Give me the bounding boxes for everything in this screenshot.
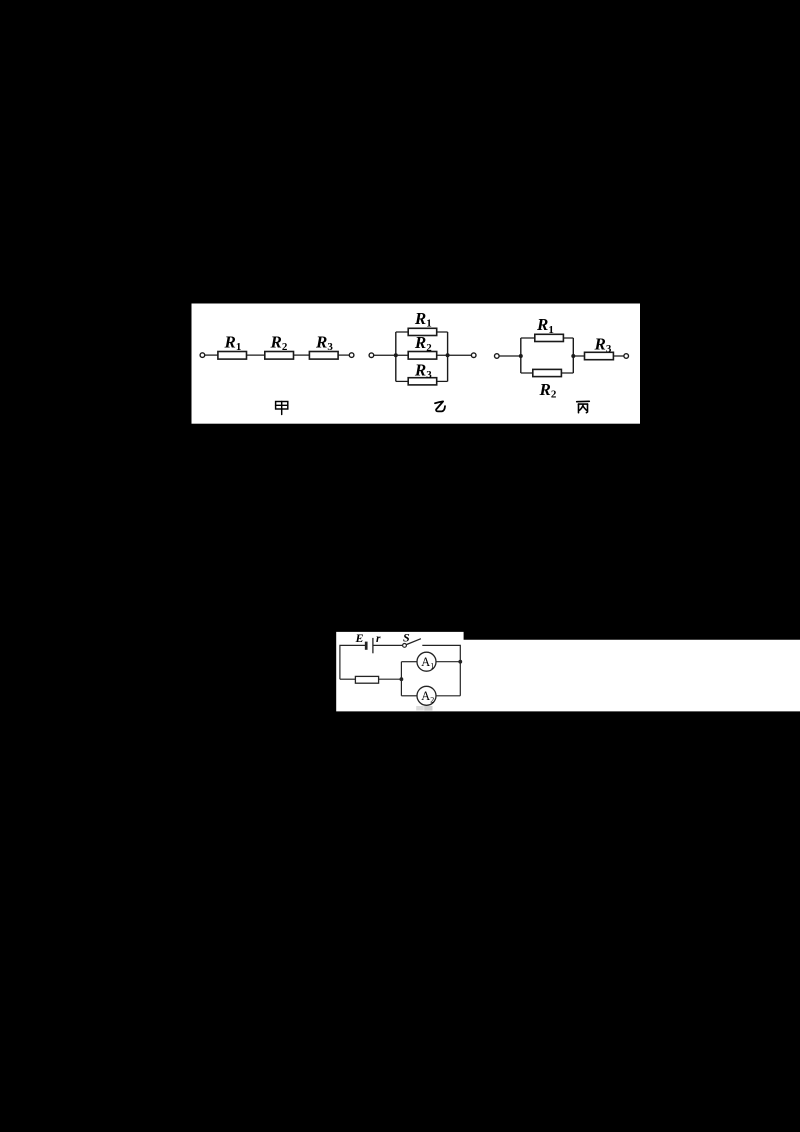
wire bottom branch left (bing) [521, 372, 533, 374]
caption yi (Chinese character) [435, 401, 445, 411]
node left (bing) [519, 354, 523, 358]
resistor R2 (yi) [408, 352, 437, 360]
left rail (yi) [395, 332, 397, 381]
wire top branch right (yi) [437, 331, 448, 333]
wire bottom branch right (bing) [561, 372, 573, 374]
switch S hinge [403, 644, 407, 648]
ammeter A1 body [417, 652, 436, 671]
wire [374, 354, 408, 356]
wire [437, 354, 472, 356]
terminal right (circuit bing) [624, 354, 629, 359]
terminal left (circuit bing) [495, 354, 500, 359]
right rail (bing) [572, 338, 574, 373]
resistor R2 (jia) [265, 352, 294, 360]
wire top branch left (bing) [521, 337, 535, 339]
wire [613, 355, 624, 357]
resistor R1 (jia) [218, 352, 247, 360]
right rail (yi) [447, 332, 449, 381]
caption jia (Chinese character) [276, 402, 288, 415]
terminal left (circuit yi) [369, 353, 374, 358]
svg-text:r: r [376, 633, 381, 645]
right rail lower (ammeter circuit) [459, 662, 461, 696]
wire switch to right rail [422, 645, 460, 661]
wire bottom branch left (yi) [396, 380, 408, 382]
wire bottom left [340, 678, 355, 680]
battery E r negative plate [365, 642, 368, 650]
wire [205, 354, 218, 356]
svg-text:S: S [403, 630, 410, 644]
watermark remnant [416, 706, 424, 710]
wire bottom branch right (yi) [437, 380, 448, 382]
wire [573, 355, 584, 357]
svg-text:E: E [355, 631, 364, 645]
resistor R3 (bing) [585, 352, 614, 359]
terminal left (circuit jia) [200, 353, 205, 358]
node split (ammeter circuit) [400, 677, 404, 681]
wire top branch left (yi) [396, 331, 408, 333]
node right (yi) [446, 353, 450, 357]
node right rail A1 [458, 660, 462, 664]
wire [338, 354, 349, 356]
wire A2 to right rail [436, 695, 460, 697]
node left (yi) [394, 353, 398, 357]
wire [247, 354, 265, 356]
wire [499, 355, 521, 357]
switch S blade [406, 639, 421, 645]
resistor R (ammeter circuit) [355, 676, 378, 683]
node right (bing) [571, 354, 575, 358]
resistor R3 (jia) [309, 352, 338, 360]
terminal right (circuit jia) [349, 353, 354, 358]
ammeter A2 body [417, 686, 436, 705]
wire battery to switch [373, 644, 403, 646]
panel: three-network figure background [192, 304, 641, 424]
wire top branch right (bing) [563, 337, 573, 339]
wire [294, 354, 310, 356]
caption bing (Chinese character) [577, 401, 590, 412]
resistor R1 (yi) [408, 328, 437, 335]
terminal right (circuit yi) [471, 353, 476, 358]
battery E r positive plate [372, 638, 374, 653]
resistor R3 (yi) [408, 378, 437, 385]
resistor R1 (bing) [535, 334, 564, 341]
wire resistor to node [378, 678, 401, 680]
wire top left (ammeter circuit) [340, 645, 366, 679]
resistor R2 (bing) [533, 369, 562, 376]
left rail (bing) [520, 338, 522, 373]
wire to ammeter A1 [401, 661, 417, 663]
panel: ammeter circuit background [336, 632, 800, 712]
middle rail [400, 662, 402, 696]
wire to ammeter A2 [401, 695, 417, 697]
wire A1 to right rail [436, 661, 460, 663]
